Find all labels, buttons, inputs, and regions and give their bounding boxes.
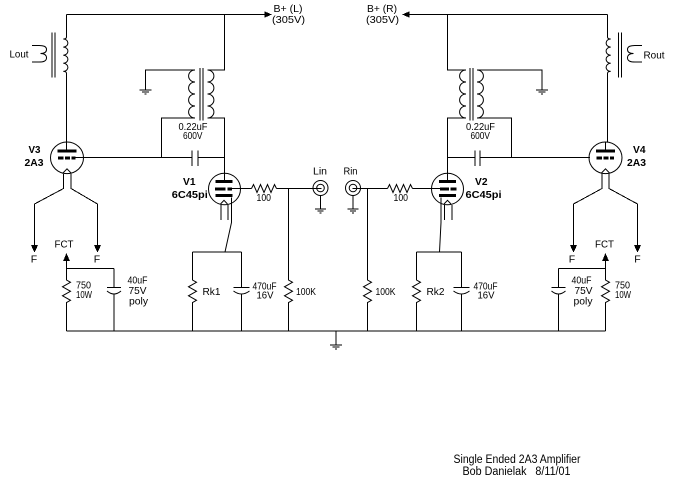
V2 heater caret xyxy=(444,200,451,204)
ground (main) xyxy=(335,331,337,345)
interstage transformer T3 core xyxy=(470,68,473,121)
wire FCT stem (left) xyxy=(66,261,68,269)
ground (Lin) xyxy=(315,209,326,213)
resistor Rk2 xyxy=(413,252,421,331)
wire 100 to Lin jack xyxy=(277,188,322,190)
wire Rk1 box top xyxy=(193,251,242,253)
svg-text:poly: poly xyxy=(129,296,149,308)
V2 cathode xyxy=(439,194,456,197)
V3 filament caret xyxy=(63,169,72,174)
interstage transformer T2 secondary winding xyxy=(189,70,195,118)
interstage transformer T2 core xyxy=(200,68,203,121)
wire V3 grid to coupling cap xyxy=(76,157,193,159)
wire T2 secondary top to ground xyxy=(146,70,196,90)
svg-text:600V: 600V xyxy=(183,130,203,142)
wire V4 filament leg right xyxy=(609,174,638,245)
arrow F (V4 right) xyxy=(634,245,641,253)
capacitor 470uF (left) xyxy=(234,252,250,288)
V1 plate lead xyxy=(224,174,226,181)
ground (interstage right) xyxy=(536,90,548,94)
V2 grid (dashed) xyxy=(440,188,449,191)
wire B+ rail to Lout primary xyxy=(66,15,68,38)
V1 heater stubs xyxy=(221,205,228,220)
wire T2 primary top to B+ rail xyxy=(208,15,225,71)
arrow B+ (left) xyxy=(265,11,273,17)
ground (Rin) xyxy=(348,209,359,213)
wire V1 grid lead xyxy=(232,188,252,190)
svg-text:16V: 16V xyxy=(478,290,495,302)
tube V4 2A3 envelope xyxy=(589,142,622,174)
V1 cathode xyxy=(216,194,233,197)
V4 plate xyxy=(596,150,615,153)
interstage transformer T3 primary winding xyxy=(460,70,466,118)
interstage transformer T3 secondary winding xyxy=(477,70,483,118)
svg-text:(305V): (305V) xyxy=(366,14,399,26)
svg-text:V3: V3 xyxy=(29,144,41,156)
capacitor 0.22uF (right) xyxy=(475,151,480,167)
capacitor 0.22uF (left) xyxy=(192,151,198,167)
wire T3 secondary top to ground xyxy=(477,70,542,90)
resistor 750 (left) xyxy=(63,269,71,332)
svg-text:600V: 600V xyxy=(471,130,491,142)
svg-text:100K: 100K xyxy=(296,286,316,298)
svg-text:Lin: Lin xyxy=(313,166,327,178)
wire Rk2 box top xyxy=(417,251,462,253)
capacitor 40uF (right) xyxy=(552,269,566,288)
svg-text:V2: V2 xyxy=(475,176,488,188)
svg-text:V4: V4 xyxy=(633,144,646,156)
resistor 100K (left) xyxy=(285,189,293,332)
wire FCT stem (right) xyxy=(605,261,607,269)
arrow F (V4 left) xyxy=(570,245,577,253)
V1 grid (dashed) xyxy=(215,188,226,191)
svg-text:F: F xyxy=(31,254,37,266)
wire V2 cathode to Rk2 box xyxy=(440,198,442,253)
jack Lin outer xyxy=(313,181,328,196)
wire 100 to V2 grid xyxy=(413,188,441,190)
wire T2 secondary bottom to grid node xyxy=(162,118,196,158)
transformer Rout secondary winding xyxy=(628,45,643,62)
arrow FCT (right) xyxy=(602,253,609,261)
capacitor 470uF (right) xyxy=(454,252,470,288)
V3 plate lead xyxy=(66,143,68,150)
V2 plate lead xyxy=(447,174,449,181)
arrow F (V3 right) xyxy=(94,245,101,253)
wire B+ rail to T3 primary xyxy=(448,15,467,71)
svg-text:100: 100 xyxy=(394,192,409,204)
svg-text:F: F xyxy=(634,254,640,266)
wire V2 plate node to coupling cap xyxy=(448,157,476,159)
wire coupling cap to V4 grid xyxy=(480,157,590,159)
transformer Lout core xyxy=(52,33,55,78)
svg-text:Rin: Rin xyxy=(344,166,358,178)
transformer Lout secondary winding xyxy=(32,45,47,62)
jack Rin inner xyxy=(349,184,357,192)
jack Rin outer xyxy=(346,181,361,196)
svg-text:2A3: 2A3 xyxy=(627,157,646,169)
V2 heater stubs xyxy=(445,205,453,220)
wire V3 filament leg right xyxy=(71,174,98,245)
V3 grid (dashed) xyxy=(58,157,64,160)
svg-text:poly: poly xyxy=(574,296,594,308)
tube V1 6C45pi envelope xyxy=(209,173,241,205)
svg-text:Rout: Rout xyxy=(644,50,665,62)
wire Rin to 100 (right) xyxy=(353,188,388,190)
svg-text:16V: 16V xyxy=(257,290,274,302)
wire Rout primary to V4 plate xyxy=(607,74,609,143)
svg-text:6C45pi: 6C45pi xyxy=(466,189,502,201)
svg-text:100K: 100K xyxy=(376,286,396,298)
svg-text:10W: 10W xyxy=(615,289,631,301)
wire T2 primary bottom to V1 plate xyxy=(208,118,225,174)
wire Lout primary to V3 plate xyxy=(66,74,68,143)
transformer Rout primary winding xyxy=(606,37,611,74)
wire T3 primary bottom to V2 plate xyxy=(448,118,467,174)
resistor Rk1 xyxy=(189,252,197,331)
arrow FCT (left) xyxy=(63,253,70,261)
svg-text:FCT: FCT xyxy=(595,239,615,251)
tube V3 2A3 envelope xyxy=(51,142,84,174)
transformer Rout core xyxy=(619,33,622,78)
V4 plate lead xyxy=(605,143,607,150)
arrow F (V3 left) xyxy=(31,245,38,253)
wire Lin jack to ground xyxy=(320,196,322,210)
svg-text:6C45pi: 6C45pi xyxy=(172,189,208,201)
V1 plate xyxy=(216,180,233,183)
wire FCT branch (left) xyxy=(67,268,115,270)
transformer Lout primary winding xyxy=(63,37,68,74)
svg-text:F: F xyxy=(94,254,100,266)
arrow B+ (right) xyxy=(402,11,410,17)
svg-text:Bob Danielak 8/11/01: Bob Danielak 8/11/01 xyxy=(463,466,571,478)
svg-text:(305V): (305V) xyxy=(272,14,305,26)
tube V2 6C45pi envelope xyxy=(432,173,464,205)
resistor 750 (right) xyxy=(602,269,610,332)
svg-text:Lout: Lout xyxy=(10,49,29,61)
svg-text:Single Ended 2A3 Amplifier: Single Ended 2A3 Amplifier xyxy=(454,454,581,466)
jack Lin inner xyxy=(317,184,325,192)
V4 filament caret xyxy=(601,169,610,174)
svg-text:10W: 10W xyxy=(76,289,92,301)
wire ground bus xyxy=(67,330,606,332)
svg-text:Rk1: Rk1 xyxy=(203,286,221,298)
svg-text:100: 100 xyxy=(257,192,272,204)
wire V4 filament leg left xyxy=(574,174,603,245)
svg-text:2A3: 2A3 xyxy=(25,157,44,169)
wire V3 filament leg left xyxy=(35,174,64,245)
resistor 100K (right) xyxy=(364,189,372,332)
resistor 100 (right) xyxy=(388,185,413,193)
interstage transformer T2 primary winding xyxy=(208,70,214,118)
ground (interstage left) xyxy=(140,90,152,94)
svg-text:V1: V1 xyxy=(183,176,196,188)
wire B+ rail (right) xyxy=(409,14,608,16)
svg-text:Rk2: Rk2 xyxy=(427,286,445,298)
V3 plate xyxy=(58,150,77,153)
wire FCT branch (right) xyxy=(559,268,606,270)
wire T3 secondary bottom to grid node xyxy=(477,118,512,158)
wire Rin jack to ground xyxy=(352,196,354,210)
svg-text:FCT: FCT xyxy=(55,239,75,251)
resistor 100 (left) xyxy=(252,185,277,193)
V2 plate xyxy=(439,180,456,183)
svg-text:F: F xyxy=(569,254,575,266)
wire B+ rail (left) xyxy=(67,14,266,16)
wire B+ rail to Rout primary xyxy=(607,15,609,38)
V4 grid (dashed) xyxy=(597,157,603,160)
capacitor 40uF (left) xyxy=(107,269,121,288)
V1 heater caret xyxy=(221,200,228,204)
wire V1 cathode to Rk1 box xyxy=(225,198,232,253)
wire coupling cap to V1 plate node xyxy=(198,157,225,159)
